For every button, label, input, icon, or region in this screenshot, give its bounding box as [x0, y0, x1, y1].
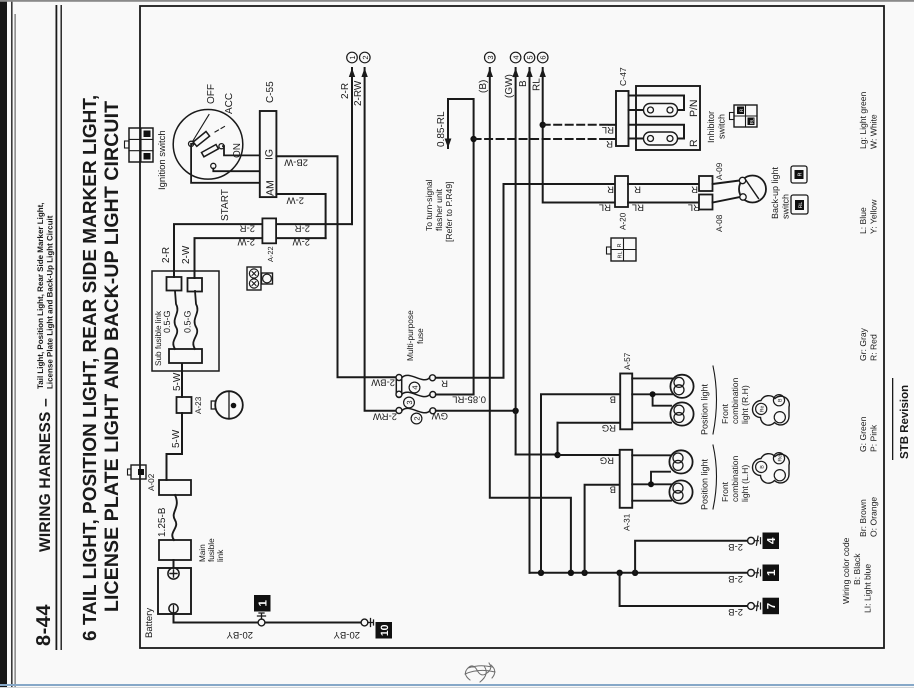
- svg-text:RL: RL: [602, 124, 614, 135]
- wire START to C-55: [213, 169, 260, 172]
- arrow 2: [361, 68, 367, 77]
- svg-text:AM: AM: [265, 180, 277, 196]
- wire jog to A-23: [181, 413, 183, 454]
- ignition switch connector icon: [125, 128, 154, 162]
- svg-text:light (R.H): light (R.H): [740, 385, 750, 424]
- svg-text:1: 1: [258, 600, 270, 607]
- inhibitor contact P/N: [644, 104, 678, 117]
- connector A-20: [615, 176, 628, 207]
- svg-text:switch: switch: [717, 114, 727, 139]
- svg-text:2-R: 2-R: [161, 247, 172, 263]
- svg-text:R: R: [634, 184, 641, 195]
- svg-text:Wiring color code: Wiring color code: [841, 537, 851, 604]
- arrow 3: [487, 68, 493, 77]
- svg-text:Back-up light: Back-up light: [770, 166, 780, 219]
- svg-text:2-W: 2-W: [181, 245, 192, 264]
- svg-text:A-09: A-09: [715, 162, 724, 180]
- svg-text:4: 4: [766, 537, 778, 544]
- svg-text:B: B: [760, 465, 766, 469]
- svg-text:C-55: C-55: [265, 81, 276, 103]
- ground connector 1 circle: [258, 619, 265, 626]
- wire A-57 stub bulb1 right: [632, 377, 672, 379]
- wire battery minus down left side (20-BY): [174, 613, 362, 623]
- junction dot tail b2: [568, 570, 574, 576]
- svg-text:R: R: [688, 139, 700, 147]
- wire A-31 stub bulb4 right with dot branch: [632, 472, 671, 485]
- GW bus: [515, 68, 517, 455]
- svg-text:Front: Front: [720, 403, 730, 424]
- connector A-09: [699, 176, 713, 191]
- svg-text:6: 6: [539, 55, 548, 59]
- svg-text:1.25-B: 1.25-B: [157, 507, 168, 537]
- svg-text:4: 4: [411, 385, 420, 389]
- ground row 4: [748, 533, 779, 550]
- svg-text:combination: combination: [730, 455, 740, 502]
- svg-text:2-R: 2-R: [240, 223, 255, 234]
- STB revision rule: [892, 378, 893, 460]
- svg-text:Y: Yellow: Y: Yellow: [869, 199, 879, 234]
- junction dot A-57: [650, 391, 656, 397]
- wire A-31 stub bulb3 right: [632, 454, 670, 456]
- wire 2-W riser: [195, 238, 326, 278]
- svg-text:2-RW: 2-RW: [353, 80, 364, 106]
- wire RG to A-31: [558, 454, 620, 456]
- svg-text:A-08: A-08: [715, 214, 724, 232]
- main fusible link: [159, 540, 191, 560]
- ignition ON contact: [219, 144, 224, 149]
- svg-text:2-W: 2-W: [238, 236, 255, 247]
- icon front combination RH: [753, 395, 790, 426]
- svg-text:2B-W: 2B-W: [284, 157, 308, 168]
- ignition pivot: [189, 141, 194, 146]
- svg-text:O: Orange: O: Orange: [869, 497, 879, 537]
- connector A-23: [177, 397, 192, 413]
- arrow 1: [349, 68, 355, 77]
- svg-text:2-B: 2-B: [728, 606, 743, 617]
- wire 0.85-RL fuse to junction: [436, 99, 474, 395]
- icon A-22 connector face: [247, 267, 273, 290]
- icon inhibitor connector face: [730, 105, 758, 127]
- wire A-57 stub bulb1 left with dot branch: [632, 394, 672, 405]
- wire 1 feed horizontal: [351, 68, 353, 224]
- wire ON to C-55: [223, 146, 260, 155]
- svg-text:WIRING HARNESS –: WIRING HARNESS –: [37, 398, 54, 552]
- svg-text:RL: RL: [632, 202, 644, 213]
- svg-text:To turn-signal: To turn-signal: [424, 179, 434, 231]
- svg-text:RG: RG: [600, 455, 614, 466]
- svg-text:combination: combination: [730, 377, 740, 424]
- sub fusible link box: [152, 271, 219, 371]
- ignition switch circle: [173, 110, 243, 180]
- svg-text:flasher unit: flasher unit: [434, 188, 444, 231]
- svg-text:B: B: [610, 484, 616, 495]
- junction dot RL dashed: [540, 122, 546, 128]
- svg-text:light (L.H): light (L.H): [740, 465, 750, 502]
- wire 2 feed horizontal: [365, 68, 399, 411]
- tail bus: [530, 572, 749, 574]
- svg-text:A-22: A-22: [266, 246, 275, 262]
- dashed wire RL to C-47: [543, 124, 609, 126]
- svg-text:Tail Light, Position Light, Re: Tail Light, Position Light, Rear Side Ma…: [36, 202, 45, 389]
- svg-text:A-23: A-23: [194, 396, 203, 414]
- svg-text:R: R: [617, 244, 623, 248]
- fuse 2: [396, 408, 436, 414]
- left thin rules: [11, 0, 13, 688]
- svg-text:R: R: [606, 138, 613, 149]
- ignition ON bar: [202, 145, 219, 157]
- svg-text:Main: Main: [198, 544, 207, 562]
- junction dot R dashed: [470, 136, 476, 142]
- svg-text:(B): (B): [478, 80, 489, 93]
- svg-text:G: Green: G: Green: [858, 416, 868, 452]
- svg-text:1: 1: [348, 55, 357, 59]
- svg-text:IG: IG: [264, 149, 276, 160]
- fusible link wavy 1: [173, 291, 177, 349]
- junction dot GW: [512, 408, 518, 414]
- wire GW fuse out: [436, 410, 516, 412]
- position light bulb3: [669, 450, 692, 473]
- svg-text:Re: Re: [760, 405, 766, 412]
- junction dot RG: [554, 452, 560, 458]
- ground 10 black square: [376, 622, 393, 639]
- connector C-47 bar: [616, 91, 629, 146]
- svg-text:RL: RL: [599, 202, 611, 213]
- ground row 1: [748, 565, 779, 582]
- svg-text:License Plate Light and Back-U: License Plate Light and Back-Up Light Ci…: [46, 215, 55, 389]
- svg-text:Re: Re: [778, 455, 784, 462]
- svg-text:STB Revision: STB Revision: [899, 385, 911, 459]
- svg-text:1: 1: [766, 569, 778, 576]
- ground 10 ticks: [368, 619, 374, 627]
- svg-text:RL: RL: [798, 202, 804, 209]
- svg-text:Inhibitor: Inhibitor: [706, 111, 716, 143]
- ignition OFF line: [193, 115, 210, 142]
- svg-text:8-44: 8-44: [33, 604, 55, 646]
- ground 1 ticks: [258, 613, 266, 619]
- svg-text:Gr: Gray: Gr: Gray: [858, 327, 868, 361]
- junction dot A-31: [648, 481, 654, 487]
- wire R A-20 to A-09: [628, 183, 699, 185]
- circled 2 fuse: [411, 413, 422, 424]
- svg-text:10: 10: [379, 624, 391, 636]
- wire ground 7 branch: [620, 573, 748, 606]
- battery: [158, 568, 191, 614]
- circled 2: [360, 52, 371, 63]
- svg-text:fuse: fuse: [415, 328, 425, 344]
- svg-text:R: R: [441, 378, 448, 389]
- fuse 4: [396, 375, 436, 381]
- arrow to flasher: [445, 139, 452, 149]
- circled 3 fuse: [404, 397, 415, 408]
- svg-text:L: Blue: L: Blue: [858, 207, 868, 234]
- svg-text:7: 7: [766, 603, 778, 609]
- svg-text:B: B: [610, 394, 616, 405]
- svg-text:Ignition switch: Ignition switch: [157, 130, 168, 190]
- bracket RH: [713, 366, 717, 434]
- top edge line: [0, 0, 914, 2]
- svg-text:P/N: P/N: [688, 99, 700, 117]
- ignition START contact: [211, 163, 216, 168]
- junction dot tail b5: [632, 570, 638, 576]
- svg-text:C-47: C-47: [618, 67, 628, 86]
- sub fusible link left connector: [169, 349, 202, 363]
- wire C-47 pin to PN near: [629, 109, 648, 111]
- connector A-31: [620, 450, 633, 508]
- battery minus terminal: [169, 604, 178, 613]
- bus (B) no3: [490, 68, 571, 573]
- fuse bus bar: [396, 375, 401, 398]
- ignition rotor bar: [193, 132, 209, 147]
- back-up light switch: [739, 176, 766, 203]
- svg-text:2-W: 2-W: [287, 195, 304, 206]
- wire C-47 pin to PN far: [629, 96, 685, 111]
- arrow 5: [526, 68, 532, 77]
- svg-text:2-B: 2-B: [728, 541, 743, 552]
- svg-text:2-B: 2-B: [728, 573, 743, 584]
- svg-text:B: Black: B: Black: [852, 553, 862, 585]
- wire pivot to C-55: [191, 144, 260, 183]
- circled 5: [524, 52, 535, 63]
- svg-text:link: link: [216, 549, 225, 562]
- wire IG 2B-W: [276, 156, 395, 377]
- svg-text:R: R: [798, 172, 804, 176]
- svg-text:2-R: 2-R: [295, 223, 310, 234]
- junction dot tail b4: [616, 570, 622, 576]
- fuse 3: [396, 391, 436, 397]
- wire RL A-20 to A-08: [628, 202, 699, 204]
- wire B feed A-31: [585, 485, 620, 573]
- svg-text:3: 3: [405, 400, 414, 404]
- inhibitor contact R: [644, 132, 678, 145]
- svg-text:W: White: W: White: [869, 114, 879, 149]
- circled 1: [347, 52, 358, 63]
- svg-text:2-W: 2-W: [293, 236, 310, 247]
- svg-text:RL: RL: [750, 118, 756, 124]
- connector A-22: [262, 218, 276, 243]
- wire R fuse to A-20: [436, 184, 615, 378]
- svg-text:P: Pink: P: Pink: [869, 424, 879, 452]
- svg-text:0.5-G: 0.5-G: [183, 310, 193, 333]
- svg-text:Position light: Position light: [700, 383, 710, 435]
- icon R backup: [791, 166, 807, 183]
- wire 2-R riser: [174, 224, 352, 277]
- circled 4: [510, 52, 521, 63]
- svg-text:Multi-purpose: Multi-purpose: [405, 310, 415, 361]
- svg-text:2: 2: [413, 416, 422, 420]
- svg-text:0.85-RL: 0.85-RL: [436, 111, 447, 147]
- wire B feed A-57: [541, 394, 620, 573]
- wire GW down to RG junction: [516, 423, 558, 455]
- svg-text:Position light: Position light: [700, 458, 710, 510]
- inhibitor switch box: [636, 86, 700, 150]
- svg-text:R: R: [607, 184, 614, 195]
- junction dot tail b1: [538, 570, 544, 576]
- wire A-23 to sub fusible link: [181, 363, 183, 397]
- svg-text:RG: RG: [602, 422, 616, 433]
- svg-text:Br: Brown: Br: Brown: [858, 499, 868, 537]
- bus RL no6: [543, 68, 615, 203]
- svg-text:A-20: A-20: [619, 212, 628, 230]
- ignition ACC dashes: [215, 125, 227, 132]
- fusible link wavy 2: [193, 291, 197, 349]
- svg-text:3: 3: [486, 55, 495, 59]
- sub link square 2: [188, 278, 203, 292]
- svg-text:5: 5: [526, 55, 535, 59]
- position light bulb4: [669, 480, 692, 503]
- arrow 4: [512, 68, 518, 77]
- svg-text:6 TAIL LIGHT, POSITION LIGHT,: 6 TAIL LIGHT, POSITION LIGHT, REAR SIDE …: [80, 95, 101, 641]
- svg-text:B: B: [778, 398, 784, 402]
- wavy wire 1.25-B: [172, 495, 177, 540]
- svg-text:R: R: [691, 184, 698, 195]
- circled 6: [537, 52, 548, 63]
- wire RG to A-57: [558, 422, 621, 424]
- svg-text:A-02: A-02: [147, 473, 156, 491]
- header double rule: [56, 5, 58, 650]
- connector C-55: [260, 111, 277, 197]
- connector A-57: [620, 374, 632, 430]
- svg-text:LICENSE PLATE LIGHT AND BACK-U: LICENSE PLATE LIGHT AND BACK-UP LIGHT CI…: [101, 101, 123, 612]
- stamp scribble: [465, 663, 495, 682]
- svg-text:Battery: Battery: [144, 608, 155, 638]
- icon A-20 connector face: [607, 238, 637, 261]
- svg-text:0.5-G: 0.5-G: [162, 310, 172, 333]
- svg-text:OFF: OFF: [206, 84, 217, 104]
- svg-text:2-R: 2-R: [340, 83, 351, 99]
- ground connector 10 circle: [361, 619, 368, 626]
- wire C-47 pin to R far: [629, 125, 685, 139]
- svg-text:Lg: Light green: Lg: Light green: [858, 91, 868, 149]
- circled 3: [485, 52, 496, 63]
- wire A-57 stub bulb2 left: [632, 422, 671, 424]
- svg-text:R: R: [739, 108, 745, 112]
- svg-text:R: Red: R: Red: [869, 334, 879, 361]
- svg-text:[Refer to P.R49]: [Refer to P.R49]: [444, 181, 454, 242]
- svg-text:fusible: fusible: [207, 538, 216, 562]
- ground row 7: [748, 598, 779, 615]
- wires A-09 A-08 to switch: [713, 181, 741, 203]
- svg-text:Front: Front: [720, 481, 730, 502]
- svg-text:START: START: [220, 189, 231, 221]
- svg-text:20-BY: 20-BY: [333, 629, 360, 640]
- sub link square 1: [167, 277, 182, 291]
- svg-text:LI: Light blue: LI: Light blue: [863, 564, 873, 613]
- wire C-47 pin to R near: [629, 138, 648, 140]
- wire AM 2-W: [276, 194, 325, 238]
- svg-text:4: 4: [512, 55, 521, 59]
- wire battery plus to main fusible link: [173, 560, 175, 568]
- junction dot tail b3: [581, 570, 587, 576]
- svg-text:ACC: ACC: [224, 93, 235, 114]
- connector A-08: [699, 195, 713, 210]
- ground 1 black square: [254, 595, 271, 612]
- icon front combination LH: [753, 453, 790, 484]
- battery plus terminal: [168, 568, 179, 579]
- svg-text:A-31: A-31: [623, 513, 632, 531]
- icon A-02 connector face: [128, 465, 147, 479]
- svg-text:5-W: 5-W: [171, 429, 182, 448]
- left black binding bar: [0, 0, 7, 688]
- icon RL backup: [791, 195, 808, 214]
- svg-text:A-57: A-57: [623, 352, 632, 370]
- arrow 6: [540, 68, 546, 77]
- position light bulb2: [670, 402, 693, 425]
- license plate light bulb: [211, 391, 243, 419]
- dashed wire R to C-47: [474, 138, 609, 140]
- position light bulb1: [670, 375, 693, 398]
- svg-text:RL: RL: [618, 251, 624, 258]
- bracket LH: [713, 445, 717, 509]
- wire A-02 to jog: [167, 454, 183, 480]
- svg-text:20-BY: 20-BY: [226, 629, 253, 640]
- svg-text:2-RW: 2-RW: [373, 411, 397, 422]
- wire ground 4 branch: [635, 541, 748, 573]
- svg-text:RL: RL: [532, 78, 543, 91]
- svg-text:(GW): (GW): [504, 74, 515, 98]
- svg-text:B: B: [518, 80, 529, 87]
- diagram frame: [140, 6, 884, 648]
- svg-text:2-BW: 2-BW: [371, 377, 395, 388]
- svg-text:2: 2: [361, 55, 370, 59]
- svg-text:switch: switch: [781, 194, 791, 219]
- circled 4 fuse: [409, 382, 420, 393]
- bus B no5: [529, 68, 531, 573]
- connector A-02: [159, 480, 191, 495]
- wire A-31 stub bulb4 left: [632, 500, 671, 502]
